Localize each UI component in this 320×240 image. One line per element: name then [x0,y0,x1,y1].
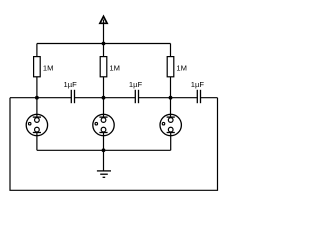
junction bus/R2 [102,96,106,100]
capacitor C1 [71,90,74,103]
wire bus segment 1 [10,97,71,99]
wire bus segment 3 [139,97,198,99]
junction bus/R1 [35,96,39,100]
wire bus to mic MK1 [36,98,38,118]
capacitor C3 [197,90,200,103]
capacitor C2 [135,90,138,103]
svg-text:1M: 1M [176,63,187,72]
junction rail/arrow [102,42,106,46]
svg-text:1M: 1M [43,63,54,72]
microphone capsule MK1 [26,114,47,135]
wire top rail [37,43,171,45]
enclosure box wire [10,98,218,191]
resistor R2 [100,57,107,77]
junction ground line [102,148,106,152]
svg-text:1µF: 1µF [129,80,143,89]
ground [97,171,111,177]
wire rail to R1 [36,44,38,57]
svg-text:1M: 1M [109,63,120,72]
wire to ground [103,150,105,170]
resistor R3 [167,57,174,77]
wire ground line [37,149,171,151]
wire bus segment 4 [201,97,218,99]
microphone capsule MK3 [160,114,181,135]
svg-text:1µF: 1µF [64,80,78,89]
microphone capsule MK2 [93,114,114,135]
wire bus to mic MK3 [170,98,172,118]
wire rail to R3 [170,44,172,57]
wire R2 to bus [103,77,105,98]
wire MK2 to ground line [103,132,105,150]
junction bus/R3 [169,96,173,100]
wire bus to mic MK2 [103,98,105,118]
power supply arrow VCC [100,16,107,56]
svg-text:1µF: 1µF [191,80,205,89]
resistor R1 [34,57,41,77]
wire bus segment 2 [75,97,136,99]
wire R1 to bus [36,77,38,98]
wire R3 to bus [170,77,172,98]
wire MK3 to ground line [170,132,172,150]
wire MK1 to ground line [36,132,38,150]
